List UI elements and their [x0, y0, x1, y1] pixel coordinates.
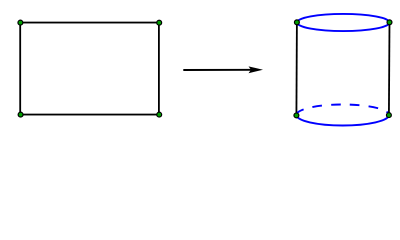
arrowhead: [249, 66, 264, 73]
rectangle ABCD: [20, 23, 159, 115]
cylinder left side wire: [295, 22, 298, 115]
point E (cylinder top-left): [294, 20, 299, 25]
point A (top-left): [18, 20, 23, 25]
cylinder bottom back arc (dashed): [296, 105, 389, 116]
point B (top-right): [157, 20, 162, 25]
cylinder right side wire: [388, 22, 391, 115]
point G (cylinder bottom-left): [294, 113, 299, 118]
point H (cylinder bottom-right): [386, 113, 391, 118]
point C (bottom-right): [157, 112, 162, 117]
point F (cylinder top-right): [387, 20, 392, 25]
arrow shaft: [183, 69, 252, 71]
cylinder bottom front arc: [296, 115, 389, 126]
cylinder top ellipse: [297, 14, 390, 31]
point D (bottom-left): [18, 112, 23, 117]
